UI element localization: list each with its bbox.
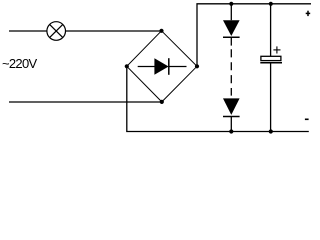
node junction dot bridge right bbox=[195, 64, 199, 68]
bridge rectifier diamond bbox=[127, 31, 197, 102]
node junction dot bridge bottom bbox=[160, 100, 164, 104]
wire lamp to bridge top corner bbox=[66, 30, 162, 32]
wire AC input bottom left bbox=[9, 101, 162, 103]
wire AC input top left bbox=[9, 30, 47, 32]
capacitor C bottom plate bbox=[260, 62, 282, 64]
output plus terminal label bbox=[306, 11, 311, 16]
output minus terminal label bbox=[305, 118, 309, 120]
wire capacitor to bottom rail bbox=[270, 63, 272, 131]
node junction dot bottom rail / capacitor branch bbox=[269, 129, 273, 133]
wire bridge right corner up to positive rail bbox=[197, 4, 311, 67]
diode VD bottom (LED string last diode) bbox=[223, 98, 240, 131]
node junction dot bottom rail / LED branch bbox=[229, 129, 233, 133]
node junction dot bridge left bbox=[125, 64, 129, 68]
diode VD top (LED string first diode) bbox=[223, 20, 240, 45]
capacitor polarity plus sign bbox=[273, 46, 280, 53]
wire dashed continuation of diode string bbox=[230, 49, 232, 95]
diode inside bridge bbox=[138, 58, 187, 75]
lamp EL1 (circle with X) bbox=[47, 22, 66, 41]
wire top rail to diode VD string bbox=[230, 4, 232, 20]
capacitor C electrolytic top plate bbox=[261, 56, 281, 60]
label ~220V AC input bbox=[2, 56, 36, 71]
wire top rail to capacitor C bbox=[270, 4, 272, 57]
node junction dot bridge top bbox=[159, 29, 163, 33]
node junction dot top rail / capacitor branch bbox=[269, 2, 273, 6]
wire bridge left corner down to negative rail bbox=[127, 66, 309, 131]
node junction dot top rail / LED branch bbox=[229, 2, 233, 6]
